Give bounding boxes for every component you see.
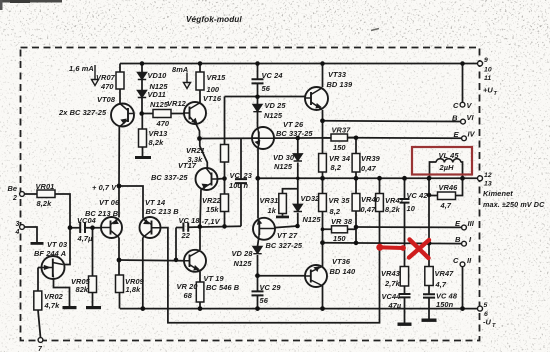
svg-text:15k: 15k <box>206 205 219 214</box>
capacitor VC48 <box>423 294 435 297</box>
wire VT36 base <box>258 275 306 277</box>
wire E-III line <box>356 226 462 228</box>
resistor VR31 <box>279 194 287 214</box>
node VT33 emitter <box>320 118 325 123</box>
wire VT06 emitter <box>118 186 120 218</box>
internals VT06 <box>110 221 112 235</box>
svg-text:VD 25: VD 25 <box>265 101 287 110</box>
svg-text:VR 34: VR 34 <box>329 154 350 163</box>
svg-text:82k: 82k <box>76 285 89 294</box>
node VT27 base <box>295 224 300 229</box>
svg-text:BD 140: BD 140 <box>330 267 356 276</box>
svg-text:56: 56 <box>262 84 271 93</box>
ground below VC48 <box>422 319 437 322</box>
internals VT33 <box>310 92 312 105</box>
ground below VR13 <box>135 156 151 159</box>
junction diode chain / +UT rail <box>140 61 145 66</box>
svg-text:VC 42: VC 42 <box>407 191 429 200</box>
wire VC42 VR43 VC44 column <box>404 178 406 322</box>
transistor VT08 <box>111 104 134 127</box>
resistor VR46 <box>438 192 456 200</box>
node emitter rail <box>117 184 122 189</box>
transistor VT19 <box>184 250 206 272</box>
wire -7.1V line <box>176 226 241 227</box>
svg-text:2,7k: 2,7k <box>384 279 401 288</box>
svg-text:150: 150 <box>333 143 346 152</box>
transistor VT03 <box>42 256 65 279</box>
wire VT36 collector emitter <box>322 243 324 309</box>
svg-text:N125: N125 <box>264 111 283 120</box>
wire VC23 column <box>240 138 242 226</box>
svg-text:VR31: VR31 <box>260 196 279 205</box>
svg-text:+U: +U <box>483 86 493 95</box>
wire terminal 3/4 ground <box>24 227 37 242</box>
junction VT33 collector / +UT rail <box>320 61 325 66</box>
svg-text:9: 9 <box>484 57 488 64</box>
wire VT14 collector to bus <box>142 238 144 309</box>
resistor VR02 <box>34 291 42 310</box>
wire VR15 column <box>199 64 201 103</box>
svg-text:N125: N125 <box>274 162 293 171</box>
transistor VT27 <box>253 218 275 240</box>
svg-text:470: 470 <box>100 82 114 91</box>
internals VT19 <box>189 255 191 268</box>
wire VR39 VR40 column <box>355 138 357 243</box>
svg-text:VC 29: VC 29 <box>260 283 282 292</box>
terminal 7 <box>38 338 43 343</box>
wire B-VI line <box>323 120 461 123</box>
svg-text:150n: 150n <box>436 300 454 309</box>
svg-text:VD32: VD32 <box>301 194 321 203</box>
junction VR47 / B-I line <box>427 241 432 246</box>
svg-text:VR40: VR40 <box>361 195 381 204</box>
junction C-V tap / +UT rail <box>460 61 465 66</box>
svg-text:VT08: VT08 <box>97 95 116 104</box>
svg-text:3,3k: 3,3k <box>188 155 204 164</box>
svg-text:VR41: VR41 <box>385 196 404 205</box>
svg-text:-U: -U <box>483 318 492 327</box>
svg-text:+ 0,7 V: + 0,7 V <box>92 183 117 192</box>
wire VR05 column <box>92 228 94 306</box>
wire VT08 emitter to node <box>118 127 120 187</box>
internals VT08 <box>127 108 129 122</box>
terminal 12/13 <box>478 176 483 181</box>
svg-text:VC44: VC44 <box>382 292 401 301</box>
resistor VR22 <box>221 194 229 212</box>
node VD30 top <box>296 136 301 141</box>
svg-text:150: 150 <box>333 234 346 243</box>
terminal C-II <box>460 262 465 267</box>
svg-text:VD 30: VD 30 <box>273 153 295 162</box>
svg-text:Kimenet: Kimenet <box>483 189 513 198</box>
resistor VR37 <box>331 134 348 141</box>
svg-text:C: C <box>453 101 459 110</box>
wire VT27 base <box>275 226 298 228</box>
junction C-II tap / -UT bus <box>460 306 465 311</box>
svg-text:VR37: VR37 <box>332 126 352 135</box>
node VD28-VC29-VT36 <box>255 273 260 278</box>
terminal B-VI <box>461 119 466 124</box>
svg-text:2: 2 <box>12 195 17 202</box>
wire diode chain column <box>141 64 143 114</box>
diode VD32 <box>293 204 302 211</box>
node VR22 bottom <box>222 224 227 229</box>
svg-text:BC 546 B: BC 546 B <box>206 283 240 292</box>
red X mark <box>409 240 429 259</box>
wire VR07 column <box>119 64 121 105</box>
svg-text:BD 139: BD 139 <box>327 80 353 89</box>
svg-text:Be: Be <box>8 184 18 193</box>
transistor VT14 <box>140 217 161 238</box>
svg-text:VR 20: VR 20 <box>177 282 199 291</box>
svg-text:4,7: 4,7 <box>440 201 452 210</box>
ground below VT03 <box>63 306 77 309</box>
wire feedback column <box>161 212 380 323</box>
terminal C-V <box>460 102 465 107</box>
resistor VR01 <box>37 190 55 198</box>
svg-text:BF 244 A: BF 244 A <box>34 249 66 258</box>
transistor VT17 <box>196 168 218 190</box>
svg-text:4,7µ: 4,7µ <box>77 234 94 243</box>
svg-text:1,8k: 1,8k <box>126 285 142 294</box>
junction VT26-VT27 emitters / output rail <box>255 176 260 181</box>
wire base input Be <box>24 194 70 228</box>
svg-text:4: 4 <box>15 229 20 236</box>
svg-text:VR12: VR12 <box>167 99 187 108</box>
svg-text:VT33: VT33 <box>328 70 347 79</box>
ground below VR05 <box>86 306 101 309</box>
resistor VR21 <box>221 145 229 163</box>
terminal E-IV <box>462 136 467 141</box>
red box around VL45 <box>412 147 472 175</box>
internals VT03 jfet <box>42 267 52 269</box>
capacitor VC29 <box>252 291 264 295</box>
wire VT03 source to ground <box>54 278 70 307</box>
dashed border <box>21 48 480 341</box>
wire VT16 emitter <box>196 124 200 139</box>
svg-text:4,7k: 4,7k <box>44 301 61 310</box>
wire VR46 leads <box>429 178 463 195</box>
terminal 3/4 <box>20 225 25 230</box>
ground below VC44 <box>398 323 412 326</box>
svg-text:VL 45: VL 45 <box>439 151 460 160</box>
transistor VT06 <box>101 217 122 238</box>
node VT17 base tap <box>222 176 227 181</box>
svg-text:1k: 1k <box>268 206 277 215</box>
wire -UT bus <box>120 308 480 310</box>
resistor VR35 <box>319 194 327 212</box>
node VT17 emitter <box>198 224 203 229</box>
capacitor VC24 <box>252 79 264 83</box>
junction VL45-VR46 left / output rail <box>427 176 432 181</box>
svg-text:BC 337-25: BC 337-25 <box>151 173 188 182</box>
svg-text:100: 100 <box>207 85 220 94</box>
svg-text:III: III <box>468 219 475 228</box>
scan smudge top-left <box>0 0 62 3</box>
wire VT17 emitter <box>200 190 201 227</box>
junction VC29 / -UT bus <box>255 306 260 311</box>
junction VT36 collector / B-I line <box>320 240 325 245</box>
svg-text:4,7: 4,7 <box>435 280 447 289</box>
svg-text:10: 10 <box>484 67 492 74</box>
wire VT03 drain <box>55 228 70 265</box>
internals VT36 <box>310 270 312 283</box>
svg-text:max. ±250 mV DC: max. ±250 mV DC <box>483 200 545 209</box>
capacitor VC44 <box>399 294 411 297</box>
wire B-I line <box>323 242 462 245</box>
transistor VT33 <box>305 87 328 110</box>
svg-text:5: 5 <box>484 302 488 309</box>
svg-text:VD11: VD11 <box>148 90 166 99</box>
internals VT26 <box>252 137 274 139</box>
wire VR41 leads <box>379 178 381 193</box>
svg-text:11: 11 <box>484 75 491 82</box>
svg-text:VT 14: VT 14 <box>145 198 165 207</box>
resistor VR34 <box>319 154 327 173</box>
wire VT03 gate <box>38 268 42 292</box>
wire node to VR09 <box>118 260 121 309</box>
wire VT17 base <box>218 178 225 181</box>
svg-text:Végfok-modul: Végfok-modul <box>186 15 242 24</box>
transistor VT16 <box>184 102 206 124</box>
svg-text:VT 26: VT 26 <box>283 120 304 129</box>
transistor VT36 <box>305 265 327 287</box>
terminal 5/6 <box>478 306 483 311</box>
svg-text:VR39: VR39 <box>361 154 381 163</box>
svg-text:68: 68 <box>184 291 193 300</box>
resistor VR41 <box>376 194 384 212</box>
svg-text:VR21: VR21 <box>186 146 205 155</box>
stray speck <box>371 29 379 31</box>
node VR46 left <box>427 193 432 198</box>
diode VD28 <box>253 247 262 254</box>
ground below VR31 <box>276 216 289 219</box>
internals VT16 <box>189 107 191 120</box>
svg-text:470: 470 <box>156 119 170 128</box>
resistor VR15 <box>196 72 204 90</box>
junction VR39-VR40 / output rail <box>354 176 359 181</box>
wire VT19 base <box>119 259 184 262</box>
svg-text:VR 35: VR 35 <box>329 196 351 205</box>
wire VT33 base <box>304 97 307 99</box>
svg-text:T: T <box>492 323 496 329</box>
svg-text:0,47: 0,47 <box>361 205 377 214</box>
capacitor VC18 <box>183 223 188 232</box>
svg-text:VC: VC <box>230 171 241 180</box>
diode VD25 <box>253 105 262 112</box>
svg-text:VR 38: VR 38 <box>331 217 353 226</box>
wire C-V terminal <box>462 64 464 103</box>
wire VT06 collector down <box>118 238 120 261</box>
svg-text:8,2k: 8,2k <box>149 138 165 147</box>
wire VT16 node wire <box>225 97 306 227</box>
wire VT19 emitter VR20 <box>199 272 201 309</box>
svg-text:VC04: VC04 <box>77 216 96 225</box>
junction VL45-VR46 right / output rail <box>460 176 465 181</box>
terminal E-III <box>462 225 467 230</box>
junction VR40 / B-I line <box>354 241 359 246</box>
wire VC24 VD25 column <box>257 64 259 128</box>
svg-text:8,2k: 8,2k <box>37 199 53 208</box>
svg-text:VT 03: VT 03 <box>47 240 68 249</box>
ground below 3/4 <box>31 242 44 245</box>
internals VT17 <box>211 173 213 186</box>
svg-text:VD 28: VD 28 <box>232 249 254 258</box>
node VR38 left <box>321 227 325 231</box>
resistor VR20 <box>196 282 204 302</box>
wire emitter node to VT14 <box>119 186 143 219</box>
resistor VR13 <box>139 129 147 147</box>
diode VD10 <box>138 73 147 80</box>
resistor VR39 <box>352 154 360 173</box>
junction VC24 / +UT rail <box>255 61 260 66</box>
wire VT26 emitter to VT27 <box>257 149 259 219</box>
wire VR37 leads <box>323 137 357 139</box>
svg-text:BC 337-25: BC 337-25 <box>276 129 313 138</box>
wire VT33 collector <box>322 64 324 88</box>
arrow 8mA <box>184 73 191 89</box>
capacitor VC04 <box>80 222 85 233</box>
terminal 9/10/11 <box>478 61 483 66</box>
svg-text:10: 10 <box>407 204 416 213</box>
resistor VR38 <box>332 226 348 233</box>
wire VC04 node <box>70 227 101 229</box>
resistor VR09 <box>116 275 124 293</box>
wire VR47 VC48 column <box>428 178 430 318</box>
terminal B-I <box>462 241 467 246</box>
svg-text:2x BC 327-25: 2x BC 327-25 <box>58 108 107 117</box>
junction VT36 emitter / -UT bus <box>320 306 325 311</box>
svg-text:B: B <box>455 235 461 244</box>
junction VR15 / +UT rail <box>198 61 203 66</box>
wire VT19 collector <box>199 227 201 250</box>
wire +UT top rail <box>120 63 480 65</box>
diode VD30 <box>293 154 302 161</box>
diode VD11 <box>138 91 147 98</box>
right margin pin labels <box>452 57 545 329</box>
svg-text:0,47: 0,47 <box>361 164 377 173</box>
svg-text:56: 56 <box>260 296 269 305</box>
svg-text:8,2k: 8,2k <box>385 205 401 214</box>
wire VR38 leads <box>323 228 357 230</box>
node VR39 top <box>354 136 359 141</box>
svg-text:23: 23 <box>243 171 253 180</box>
node VT06 collector <box>117 258 122 263</box>
node VR01-VC04 <box>68 225 73 230</box>
svg-text:VT 06: VT 06 <box>99 198 120 207</box>
resistor VR40 <box>352 194 360 212</box>
internals VT27 <box>258 223 260 236</box>
wire VT33 emitter <box>322 110 324 121</box>
svg-text:VI: VI <box>467 113 475 122</box>
svg-text:100: 100 <box>229 181 242 190</box>
svg-text:-7,1V: -7,1V <box>202 217 221 226</box>
svg-text:C: C <box>453 256 459 265</box>
svg-text:E: E <box>455 219 461 228</box>
junction VR34-VR35 / output rail <box>320 176 325 181</box>
svg-text:VR22: VR22 <box>202 196 222 205</box>
node E-III tap <box>354 225 359 230</box>
capacitor VC23 <box>235 179 247 183</box>
svg-text:B: B <box>452 114 458 123</box>
svg-text:BC 213 B: BC 213 B <box>146 207 180 216</box>
wire output rail <box>258 177 481 179</box>
svg-text:VC 24: VC 24 <box>262 71 283 80</box>
svg-text:VT16: VT16 <box>203 94 222 103</box>
svg-text:8,2: 8,2 <box>331 163 342 172</box>
svg-text:12: 12 <box>484 172 492 179</box>
wire C-II to bus <box>462 267 464 309</box>
svg-text:VR07: VR07 <box>96 73 116 82</box>
svg-text:1,6 mA: 1,6 mA <box>69 64 94 73</box>
node VR05 tap <box>90 225 95 230</box>
node VC18 to VT19 base <box>174 258 179 263</box>
svg-text:VR43: VR43 <box>381 269 401 278</box>
wire VL45 leads <box>430 162 463 178</box>
junction VR41 / output rail <box>377 176 382 181</box>
svg-text:VR46: VR46 <box>439 183 459 192</box>
svg-text:2µH: 2µH <box>439 163 455 172</box>
svg-text:VT 27: VT 27 <box>277 231 298 240</box>
wire VR12 leads <box>142 113 185 115</box>
wire VR13 lead <box>141 114 143 157</box>
svg-text:VR01: VR01 <box>36 182 55 191</box>
wire VR31 branch <box>283 189 298 216</box>
svg-text:8,2: 8,2 <box>330 207 341 216</box>
transistor VT26 <box>252 127 274 149</box>
svg-text:N125: N125 <box>303 215 322 224</box>
wire VT27 collector VD28 <box>258 240 259 276</box>
wire VD30 VD32 column <box>297 138 299 226</box>
terminal 2 <box>20 192 25 197</box>
wire VD28 node to VC29 <box>257 276 259 309</box>
junction VT14 collector / -UT bus <box>140 306 145 311</box>
svg-text:VT 19: VT 19 <box>204 274 225 283</box>
resistor VR43 <box>400 267 408 287</box>
svg-text:13: 13 <box>484 181 492 188</box>
svg-text:IV: IV <box>468 130 476 139</box>
svg-text:VD10: VD10 <box>148 71 168 80</box>
wire VT17 collector <box>200 139 208 169</box>
svg-text:VR15: VR15 <box>207 73 227 82</box>
node VT08 base <box>139 111 144 116</box>
resistor VR47 <box>425 267 433 286</box>
svg-text:8mA: 8mA <box>172 65 188 74</box>
svg-text:22: 22 <box>181 231 191 240</box>
svg-text:VR47: VR47 <box>435 269 455 278</box>
node VT16-VT17 <box>197 136 202 141</box>
wire VR02 to terminal 7 <box>38 310 41 338</box>
wire VC18 stub <box>175 228 177 260</box>
svg-text:VR13: VR13 <box>149 129 169 138</box>
node VC24 tap <box>255 95 260 100</box>
red jumper line <box>376 244 406 251</box>
junction VR20 / -UT bus <box>198 306 203 311</box>
svg-text:BC 327-25: BC 327-25 <box>266 241 303 250</box>
svg-text:VT36: VT36 <box>332 257 351 266</box>
svg-text:VC 18: VC 18 <box>179 216 201 225</box>
svg-text:N125: N125 <box>234 259 253 268</box>
resistor VR05 <box>89 276 97 293</box>
capacitor VC42 <box>400 199 410 203</box>
internals VT14 <box>151 221 153 235</box>
svg-text:47µ: 47µ <box>388 301 402 310</box>
resistor VR12 <box>153 110 171 118</box>
wire E line <box>200 137 465 140</box>
arrow 1,6mA <box>92 65 99 86</box>
svg-text:3: 3 <box>16 221 20 228</box>
svg-text:n: n <box>244 181 249 190</box>
